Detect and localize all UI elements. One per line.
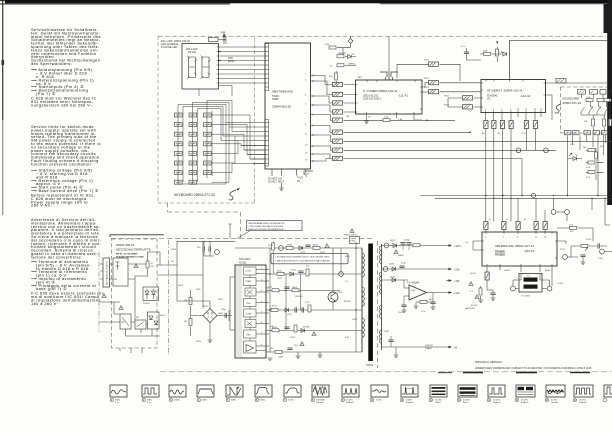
- svg-text:6.8k: 6.8k: [586, 167, 591, 169]
- resistor: [272, 243, 275, 250]
- svg-text:562: 562: [583, 147, 587, 149]
- svg-text:29504-003.92: 29504-003.92: [272, 105, 291, 109]
- key switch: [175, 132, 183, 136]
- caps top: [203, 246, 205, 251]
- mains input connector: [103, 258, 110, 287]
- wires block pins to plug column: [319, 76, 333, 162]
- diamond connector top: [348, 39, 353, 44]
- capacitor: [406, 243, 411, 245]
- resistor R824: [335, 73, 338, 80]
- wires inside: [110, 252, 161, 320]
- filter cap: [225, 313, 227, 318]
- ground: [478, 300, 483, 302]
- diode with arrow: [573, 157, 577, 161]
- scan border right strip: [607, 0, 612, 205]
- svg-text:P702: P702: [560, 249, 566, 251]
- svg-text:220µ: 220µ: [221, 309, 226, 311]
- junction dots: [426, 120, 428, 122]
- top dashed chassis boundary line: [158, 35, 606, 37]
- svg-text:+B: +B: [465, 242, 468, 244]
- output row 2: [382, 268, 450, 270]
- svg-text:Flyback: Flyback: [521, 402, 529, 404]
- svg-text:R611: R611: [277, 270, 283, 272]
- svg-text:C645: C645: [384, 331, 390, 333]
- key contact slashes: [581, 107, 609, 112]
- svg-text:R601: R601: [178, 285, 184, 287]
- svg-text:15 kHz: 15 kHz: [521, 400, 528, 402]
- wire: [337, 48, 351, 57]
- svg-text:33V: 33V: [278, 179, 283, 181]
- arrow marks on display lines: [219, 51, 222, 62]
- svg-text:BLAU: BLAU: [545, 269, 551, 272]
- svg-text:680: 680: [429, 299, 433, 301]
- warning triangle low: [300, 342, 304, 346]
- svg-text:4.7k: 4.7k: [570, 144, 575, 146]
- svg-text:16: 16: [540, 109, 543, 111]
- oscillogram 3: [169, 385, 186, 402]
- svg-text:KL 652: KL 652: [471, 305, 478, 307]
- dashed enclosure display/keyboard board: [158, 36, 255, 203]
- svg-text:2.2k: 2.2k: [586, 177, 591, 179]
- svg-text:13: 13: [544, 237, 547, 239]
- resistor: [286, 246, 293, 249]
- diode: [392, 267, 396, 271]
- svg-text:47k: 47k: [306, 266, 310, 268]
- plug connector: [533, 121, 537, 129]
- svg-text:1.5: 1.5: [345, 281, 349, 283]
- ground: [209, 336, 211, 340]
- svg-text:+147V: +147V: [454, 245, 461, 248]
- plug below: [485, 272, 489, 280]
- capacitor: [305, 245, 310, 247]
- svg-text:C611: C611: [277, 278, 283, 280]
- plug connector: [543, 222, 547, 230]
- capacitor: [302, 307, 304, 312]
- svg-text:50Hz: 50Hz: [115, 400, 120, 402]
- mains switch box: [135, 320, 146, 329]
- svg-text:4: 4: [305, 95, 307, 97]
- test point: [339, 272, 344, 277]
- svg-text:2A: 2A: [171, 260, 174, 263]
- key switch: [175, 113, 183, 117]
- ground: [431, 307, 436, 309]
- svg-text:1: 1: [305, 74, 307, 76]
- svg-text:390: 390: [270, 348, 274, 350]
- resistor: [308, 305, 311, 312]
- test point: [563, 255, 568, 260]
- dashed link lines from keyboard area down: [168, 203, 241, 238]
- plug connector: [463, 105, 473, 109]
- bottom pins down: [487, 266, 552, 286]
- plug connector: [502, 222, 506, 230]
- svg-text:1.5k: 1.5k: [569, 224, 574, 226]
- svg-text:C619: C619: [290, 337, 296, 339]
- svg-text:+B: +B: [454, 347, 457, 350]
- resistor: [595, 152, 598, 159]
- key switch: [175, 123, 183, 127]
- svg-text:1k: 1k: [576, 155, 579, 157]
- plug connector: [429, 81, 439, 85]
- junction to bus: [568, 94, 610, 195]
- svg-text:50 Hz: 50 Hz: [288, 400, 294, 402]
- plug connector: [492, 121, 496, 129]
- output row +D: [382, 245, 450, 247]
- svg-text:AV: AV: [482, 132, 485, 135]
- capacitor: [400, 243, 405, 245]
- vertical links: [270, 241, 356, 352]
- svg-text:K.-TUNER 29504-101.41: K.-TUNER 29504-101.41: [363, 89, 398, 93]
- svg-text:NETZANSCHL. PLATTE: NETZANSCHL. PLATTE: [106, 261, 109, 285]
- svg-text:MV60: MV60: [228, 61, 235, 63]
- svg-text:P202: P202: [424, 78, 430, 80]
- resistor network below: [588, 149, 595, 152]
- plug connector: [333, 130, 343, 134]
- lower output: [382, 346, 450, 348]
- resistor on bus R931: [383, 119, 390, 122]
- svg-text:22n: 22n: [197, 247, 201, 249]
- svg-text:160 a 260 V~: 160 a 260 V~: [31, 301, 60, 306]
- svg-text:50Hz: 50Hz: [147, 400, 152, 402]
- op-amp bias parts: [404, 280, 433, 306]
- dashed keyboard enclosure right: [561, 87, 608, 133]
- ZF pin ticks: [481, 80, 546, 113]
- svg-text:470µ: 470µ: [401, 263, 406, 265]
- svg-text:50 Hz: 50 Hz: [376, 400, 382, 402]
- svg-text:START: START: [246, 280, 253, 283]
- svg-text:17: 17: [574, 400, 577, 402]
- degauss sub box: [143, 287, 159, 301]
- svg-text:IC 631: IC 631: [239, 261, 247, 264]
- wire from top box: [218, 36, 226, 44]
- svg-text:IC66: IC66: [411, 290, 416, 292]
- resistor R822: [337, 55, 344, 58]
- svg-text:50Hz: 50Hz: [231, 400, 236, 402]
- svg-text:16: 16: [546, 400, 549, 402]
- svg-text:P303: P303: [444, 105, 450, 107]
- svg-text:des Sperrwandlers:: des Sperrwandlers:: [31, 61, 72, 66]
- key switch: [175, 161, 183, 165]
- svg-text:50 Hz: 50 Hz: [551, 400, 557, 402]
- internal function boxes: [244, 267, 257, 353]
- svg-text:TDA3653: TDA3653: [495, 253, 506, 256]
- ground: [296, 356, 301, 358]
- svg-text:0.22: 0.22: [268, 287, 273, 289]
- capacitor: [399, 266, 404, 268]
- svg-text:TA/SYN: TA/SYN: [338, 52, 346, 55]
- svg-text:LOGIC: LOGIC: [246, 271, 253, 273]
- svg-text:R614: R614: [292, 287, 298, 289]
- bridge rectifier: [203, 309, 217, 323]
- long bus wires to right side: [344, 120, 612, 158]
- svg-text:LAUTSPR: LAUTSPR: [465, 307, 475, 310]
- svg-text:C600: C600: [218, 313, 224, 315]
- svg-text:15kHz: 15kHz: [174, 400, 180, 402]
- svg-text:SCHM: SCHM: [246, 314, 252, 316]
- left cluster small parts: [469, 282, 473, 286]
- ground: [414, 306, 419, 308]
- long verticals down to deflection: [486, 129, 511, 222]
- wire tuner top to plug: [397, 64, 481, 92]
- oscillogram 17: [573, 385, 593, 404]
- svg-text:4.7: 4.7: [470, 291, 474, 293]
- svg-text:TY 40164: TY 40164: [407, 281, 420, 285]
- NTC box: [120, 314, 131, 329]
- ABLENKUNG block: [482, 232, 557, 266]
- svg-text:10: 10: [517, 109, 520, 111]
- svg-text:C628: C628: [352, 319, 358, 321]
- diode: [301, 329, 305, 333]
- plug connector: [333, 156, 343, 160]
- test point: [600, 249, 605, 254]
- ground: [402, 310, 407, 312]
- wires into top of block: [486, 230, 545, 233]
- svg-text:BY448: BY448: [303, 327, 310, 329]
- oscillogram 13: [457, 385, 477, 404]
- horizontal bus pair lower right: [420, 196, 612, 199]
- svg-text:BU508: BU508: [344, 301, 351, 303]
- test point: [215, 250, 220, 255]
- svg-text:Parabel: Parabel: [316, 401, 324, 404]
- svg-text:P80: P80: [221, 32, 226, 35]
- svg-text:260 V AC.: 260 V AC.: [31, 203, 52, 208]
- note box 1: [247, 221, 303, 231]
- primary winding: [361, 248, 363, 352]
- vertical resistors bottom of box: [592, 119, 595, 126]
- svg-text:KEYBOARD 29504-071.32: KEYBOARD 29504-071.32: [174, 193, 215, 197]
- svg-text:GELB: GELB: [504, 270, 510, 272]
- arrow out: [449, 291, 453, 294]
- resistor: [413, 244, 420, 247]
- small box above display: [209, 38, 219, 42]
- capacitor: [401, 305, 406, 307]
- svg-text:5V ABST: 5V ABST: [268, 178, 278, 181]
- svg-text:REG: REG: [247, 335, 252, 337]
- tuning module 29504-003.92: [265, 43, 311, 169]
- svg-text:7: 7: [305, 113, 307, 115]
- right pin stubs with arrows: [311, 76, 320, 162]
- oscillogram 5: [226, 385, 243, 402]
- svg-text:4.7: 4.7: [151, 263, 155, 265]
- wires exit right: [157, 241, 203, 275]
- squiggle wire break left of box: [555, 104, 561, 113]
- resistor: [479, 288, 482, 295]
- svg-text:10: 10: [371, 400, 374, 402]
- oscillogram 15: [515, 385, 535, 404]
- svg-text:15: 15: [305, 153, 308, 155]
- row exit comb right of matrix: [178, 115, 265, 184]
- hatched strip: [237, 266, 241, 357]
- resistor: [588, 161, 595, 164]
- plug row top: [578, 90, 586, 94]
- plug row bottom: [565, 131, 572, 135]
- junction dots: [269, 273, 271, 275]
- svg-text:D635: D635: [389, 264, 395, 266]
- svg-text:29504-118.10: 29504-118.10: [344, 235, 358, 237]
- resistor: [272, 289, 279, 292]
- svg-text:12V: 12V: [299, 178, 304, 180]
- top plugs of deflection board: [484, 222, 488, 230]
- resistor R821: [329, 46, 336, 49]
- svg-text:TRAFO: TRAFO: [425, 347, 432, 350]
- svg-text:R616: R616: [268, 245, 274, 247]
- tuner bottom stubs: [367, 114, 423, 121]
- svg-text:+26V: +26V: [454, 269, 460, 272]
- components above ZF: [464, 52, 469, 54]
- plug connector: [509, 121, 513, 129]
- svg-text:14: 14: [534, 109, 537, 111]
- plug connector: [333, 110, 343, 114]
- svg-text:1: 1: [485, 109, 487, 111]
- row y248: [235, 247, 362, 249]
- svg-text:Flyback: Flyback: [346, 402, 354, 404]
- diode: [285, 308, 289, 312]
- svg-text:-007.21: -007.21: [524, 249, 535, 253]
- svg-text:8: 8: [510, 109, 512, 111]
- svg-text:P302: P302: [444, 96, 450, 98]
- diode: [290, 272, 294, 276]
- speaker TV LS63: [519, 274, 542, 293]
- svg-text:13: 13: [458, 400, 461, 402]
- resistor: [313, 246, 320, 249]
- diode: [503, 52, 507, 56]
- svg-text:C705: C705: [598, 258, 604, 260]
- svg-text:+12V: +12V: [454, 292, 460, 295]
- svg-text:5: 5: [305, 104, 307, 106]
- svg-text:Video: Video: [435, 402, 441, 404]
- inner sub box left: [113, 258, 128, 286]
- svg-text:C642: C642: [398, 312, 404, 314]
- left pin stubs: [230, 277, 235, 330]
- warning triangle: [134, 264, 138, 268]
- wire from diamond down: [350, 36, 352, 47]
- svg-text:SIC: SIC: [151, 266, 155, 268]
- svg-text:17: 17: [305, 160, 308, 162]
- svg-text:22µ: 22µ: [294, 345, 298, 347]
- capacitor: [430, 302, 435, 304]
- row y310: [266, 309, 362, 311]
- svg-text:D636: D636: [390, 277, 396, 279]
- svg-text:11: 11: [305, 134, 308, 136]
- svg-text:1.6k: 1.6k: [398, 119, 403, 121]
- svg-text:1000µ: 1000µ: [404, 240, 411, 242]
- svg-text:15 kHz: 15 kHz: [493, 400, 500, 402]
- speaker connection circles: [511, 286, 516, 291]
- svg-text:Flyback: Flyback: [493, 402, 501, 404]
- svg-text:VORSCHRIFTEN NACH VDE 0860: VORSCHRIFTEN NACH VDE 0860: [249, 225, 284, 228]
- svg-text:V: V: [506, 219, 508, 221]
- svg-text:2.2k: 2.2k: [305, 302, 310, 304]
- svg-text:T631: T631: [337, 292, 343, 294]
- key switch: [175, 180, 183, 184]
- bottom pin stubs: [272, 169, 305, 176]
- ZF right output wire: [546, 82, 608, 84]
- oscillogram 1: [110, 385, 127, 404]
- plug connector: [333, 92, 343, 96]
- output row 3: [382, 279, 409, 281]
- svg-text:C617: C617: [287, 314, 293, 316]
- svg-text:NETZSCHALTERPLATTE: NETZSCHALTERPLATTE: [116, 248, 151, 252]
- svg-text:+ SPANN: + SPANN: [303, 170, 313, 173]
- plug connector: [524, 121, 528, 129]
- 7-segment digit 2: [201, 56, 211, 80]
- ground under pin: [281, 183, 283, 188]
- svg-text:B+: B+: [524, 219, 527, 221]
- capacitor: [287, 348, 292, 350]
- warning triangle: [475, 295, 479, 299]
- svg-text:29...: 29...: [487, 98, 492, 101]
- ZF bottom plugs: [484, 121, 488, 129]
- plug connector: [534, 222, 538, 230]
- svg-text:P203: P203: [424, 87, 430, 89]
- svg-text:TRIG: TRIG: [246, 303, 251, 305]
- row y352: [266, 351, 362, 353]
- svg-text:nungsbereich 160 bis 260 V~: nungsbereich 160 bis 260 V~: [31, 102, 93, 107]
- svg-text:R631: R631: [345, 256, 351, 258]
- svg-text:UB: UB: [346, 116, 350, 118]
- key switch: [175, 171, 183, 175]
- svg-text:13: 13: [305, 145, 308, 147]
- svg-text:PLATINE LED: PLATINE LED: [161, 45, 178, 49]
- 7-segment digit 1: [187, 56, 197, 80]
- capacitor: [298, 271, 303, 273]
- row y290: [266, 290, 340, 292]
- svg-text:TV LS63: TV LS63: [521, 296, 530, 298]
- internal components: [582, 94, 610, 98]
- key switch grid 3 cols x 8 rows: [175, 113, 212, 184]
- test point: [279, 246, 284, 251]
- bridge wires: [177, 265, 226, 336]
- svg-text:D632: D632: [390, 240, 396, 242]
- svg-text:ZF-VERST. 29504-132.41: ZF-VERST. 29504-132.41: [487, 89, 523, 93]
- svg-text:VID: VID: [497, 133, 501, 135]
- test point: [384, 243, 389, 248]
- ground: [394, 355, 399, 357]
- diode: [393, 244, 397, 248]
- svg-text:250V: 250V: [196, 341, 201, 343]
- oscillogram 10: [370, 385, 388, 402]
- left lower wires: [100, 302, 160, 336]
- arrow out: [449, 346, 453, 349]
- capacitor: [490, 293, 495, 295]
- plug connector: [333, 148, 343, 152]
- oscillogram 7: [283, 385, 301, 402]
- svg-text:FB: FB: [114, 279, 117, 281]
- svg-text:-111.41: -111.41: [398, 94, 408, 98]
- resistor: [189, 319, 192, 326]
- svg-text:2: 2: [485, 237, 487, 239]
- svg-text:Burst: Burst: [463, 401, 468, 404]
- grounds: [298, 352, 320, 356]
- svg-text:5V: 5V: [368, 117, 371, 119]
- plug connector: [333, 139, 343, 143]
- svg-text:SCHALT: SCHALT: [268, 180, 277, 183]
- svg-text:MP-PL 29-729 30M06: MP-PL 29-729 30M06: [116, 254, 138, 256]
- svg-text:D611: D611: [320, 252, 326, 254]
- resistor: [294, 325, 297, 332]
- svg-text:8 V⎓: 8 V⎓: [147, 402, 152, 404]
- oscillogram 14: [487, 385, 505, 404]
- svg-text:SI632: SI632: [398, 255, 404, 257]
- svg-text:5V: 5V: [352, 54, 355, 56]
- svg-text:PRINTED IN GERMANY: PRINTED IN GERMANY: [475, 361, 503, 364]
- oscillogram 8: [311, 385, 329, 404]
- svg-text:KL653: KL653: [144, 303, 151, 305]
- ZF amplifier block: [481, 80, 546, 113]
- svg-text:50/15kHz: 50/15kHz: [316, 400, 325, 402]
- wire bundle display to tuning block: [219, 47, 266, 83]
- right cluster components: [570, 226, 577, 229]
- NETZSCHALTERPLATTE dashed box: [112, 239, 158, 348]
